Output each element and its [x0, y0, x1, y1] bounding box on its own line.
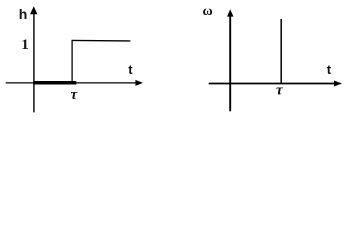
svg-text:τ: τ [71, 87, 79, 103]
svg-text:1: 1 [21, 37, 29, 53]
left plot y-axis arrowhead [30, 6, 37, 14]
svg-text:t: t [128, 62, 133, 77]
impulse at tau [280, 19, 282, 84]
left plot x-axis arrowhead [135, 80, 143, 86]
svg-text:ω: ω [203, 4, 213, 19]
svg-text:h: h [19, 6, 28, 22]
step function top level [72, 39, 131, 42]
svg-text:t: t [327, 62, 332, 77]
left plot y-axis [33, 10, 35, 112]
left plot x-axis [6, 82, 136, 84]
right plot y-axis [229, 12, 231, 111]
right plot x-axis arrowhead [334, 81, 342, 87]
step function zero segment (thick) [33, 81, 76, 85]
step function riser at tau [71, 40, 73, 83]
right plot y-axis arrowhead [227, 9, 234, 16]
svg-text:τ: τ [276, 82, 284, 98]
right plot x-axis [209, 83, 335, 85]
